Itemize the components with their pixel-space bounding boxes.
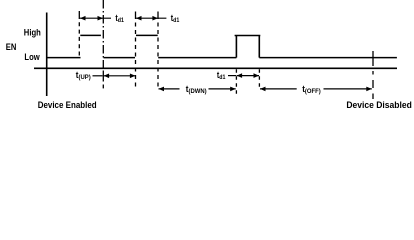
dimension tUP: leader — [93, 75, 103, 77]
wire low segment 4 — [259, 57, 397, 59]
dimension tDWN: left arrowhead — [159, 87, 165, 92]
dimension td1 third: left arrowhead — [237, 73, 243, 78]
cursor solid tick at row A — [102, 71, 104, 82]
pulse 2 top — [136, 34, 158, 36]
svg-text:Device Enabled: Device Enabled — [38, 99, 97, 110]
svg-text:Device Disabled: Device Disabled — [346, 100, 411, 110]
dimension td1 first: right arrowhead — [98, 16, 104, 21]
pulse 2 rising edge tick — [135, 12, 137, 20]
pulse 1 rising edge tick — [78, 11, 80, 19]
dimension tOFF: right arrowhead — [366, 87, 372, 92]
pulse 1 rising edge dashed — [78, 19, 80, 58]
dimension tUP: right arrowhead — [130, 74, 136, 79]
dimension tUP: line — [104, 75, 136, 77]
pulse 3 rise extension dashed — [235, 69, 237, 94]
dimension td1 second: line — [136, 17, 166, 19]
svg-text:EN: EN — [6, 41, 17, 52]
dimension td1 third: leader — [228, 75, 236, 77]
time axis line — [34, 67, 397, 69]
cursor dash-dot line at pulse 1 fall — [102, 0, 104, 70]
dimension tDWN: left line — [159, 88, 180, 90]
pulse 3 falling edge — [258, 36, 260, 58]
dimension td1 second: left arrowhead — [136, 16, 142, 21]
pulse 2 falling edge tick — [157, 12, 159, 20]
dimension tDWN: right arrowhead — [230, 87, 236, 92]
wire low segment 2 — [104, 57, 136, 59]
cursor end dash — [102, 85, 104, 89]
dimension td1 third: line — [237, 75, 259, 77]
pulse 1 top — [80, 34, 101, 36]
dimension tDWN: right line — [209, 88, 236, 90]
dimension tUP: left arrowhead — [104, 74, 110, 79]
device disabled cursor dash 4 — [372, 94, 374, 100]
pulse 3 rising edge — [235, 36, 237, 58]
dimension td1 first: line — [80, 17, 111, 19]
pulse 2 falling edge dashed — [157, 19, 159, 90]
pulse 2 rising edge dashed — [135, 19, 137, 88]
svg-text:High: High — [24, 27, 41, 38]
svg-text:Low: Low — [24, 51, 40, 62]
EN axis vertical — [46, 13, 48, 97]
dimension td1 third: right arrowhead — [254, 73, 260, 78]
device disabled cursor dash 3 — [372, 80, 374, 88]
device disabled cursor dash 1 — [372, 51, 374, 66]
wire low segment 3 — [158, 57, 236, 59]
device disabled cursor dash 2 — [372, 71, 374, 75]
wire low segment 1 — [47, 57, 81, 59]
dimension tOFF: left line — [260, 88, 297, 90]
dimension td1 second: right arrowhead — [152, 16, 158, 21]
dimension td1 first: left arrowhead — [80, 16, 86, 21]
pulse 3 fall extension dashed — [258, 69, 260, 90]
dimension tOFF: right line — [324, 88, 372, 90]
dimension tOFF: left arrowhead — [260, 87, 266, 92]
pulse 3 top — [235, 35, 261, 37]
